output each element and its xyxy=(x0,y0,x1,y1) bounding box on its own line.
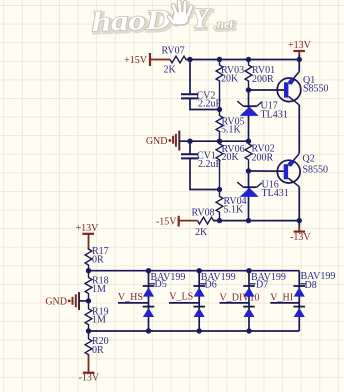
svg-text:2K: 2K xyxy=(164,64,177,75)
svg-text:+13V: +13V xyxy=(76,223,100,234)
svg-text:RV07: RV07 xyxy=(162,46,185,57)
svg-text:D6: D6 xyxy=(205,279,217,290)
svg-text:-13V: -13V xyxy=(290,232,311,243)
svg-text:+13V: +13V xyxy=(288,40,312,51)
svg-text:V_LS: V_LS xyxy=(169,292,193,303)
svg-text:0R: 0R xyxy=(92,254,104,265)
svg-text:+15V: +15V xyxy=(124,55,148,66)
svg-text:S8550: S8550 xyxy=(303,83,329,94)
svg-text:D7: D7 xyxy=(256,279,268,290)
svg-text:Q2: Q2 xyxy=(303,153,315,164)
svg-text:V_HI: V_HI xyxy=(270,292,293,303)
svg-text:GND: GND xyxy=(146,136,168,147)
svg-text:TL431: TL431 xyxy=(261,109,288,120)
svg-text:D5: D5 xyxy=(155,279,167,290)
svg-text:haoD: haoD xyxy=(91,4,171,38)
svg-text:5.1K: 5.1K xyxy=(221,125,242,136)
svg-text:D8: D8 xyxy=(305,280,317,291)
svg-text:20K: 20K xyxy=(221,73,239,84)
svg-text:TL431: TL431 xyxy=(262,188,289,199)
svg-text:GND: GND xyxy=(45,296,67,307)
svg-text:5.1K: 5.1K xyxy=(224,204,245,215)
svg-text:-15V: -15V xyxy=(156,217,177,228)
svg-text:.net: .net xyxy=(214,17,234,32)
svg-text:2.2uF: 2.2uF xyxy=(198,159,222,170)
svg-text:1M: 1M xyxy=(92,314,106,325)
svg-text:RV08: RV08 xyxy=(192,207,215,218)
svg-text:20K: 20K xyxy=(222,152,240,163)
svg-text:V_DIV10: V_DIV10 xyxy=(220,292,260,303)
svg-text:S8550: S8550 xyxy=(303,164,329,175)
svg-text:0R: 0R xyxy=(92,345,104,356)
svg-text:V_HS: V_HS xyxy=(118,292,143,303)
svg-text:-13V: -13V xyxy=(79,372,100,383)
svg-text:200R: 200R xyxy=(252,152,274,163)
svg-text:1M: 1M xyxy=(92,284,106,295)
svg-text:2K: 2K xyxy=(195,227,208,238)
svg-text:200R: 200R xyxy=(252,74,274,85)
